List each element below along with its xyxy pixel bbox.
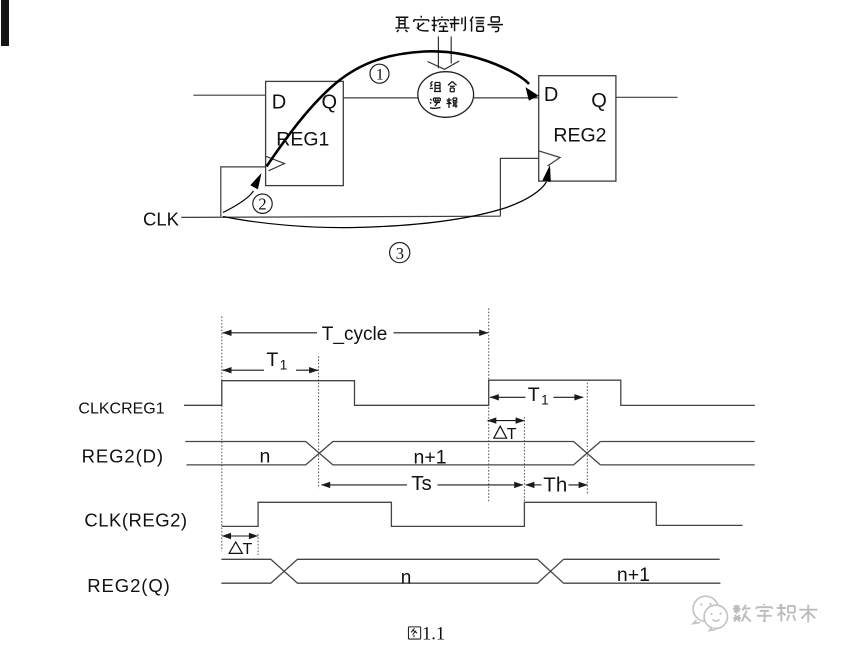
watermark logo bubbles xyxy=(693,596,727,630)
label 组合 inside ellipse xyxy=(430,82,457,92)
svg-text:1: 1 xyxy=(541,392,549,407)
clock wedge REG2 xyxy=(539,151,560,166)
svg-text:Th: Th xyxy=(543,473,567,496)
T_cycle dimension arrow xyxy=(223,332,488,334)
caption 图1.1 xyxy=(408,627,420,639)
REG2(Q) waveform xyxy=(221,559,720,583)
arrowhead of curve 1 xyxy=(526,87,539,100)
svg-text:T: T xyxy=(507,426,517,443)
arrowhead of curve 3 xyxy=(542,165,550,182)
svg-text:n: n xyxy=(260,446,271,468)
watermark text 数字积木 xyxy=(733,604,817,622)
label delta T lower xyxy=(229,542,242,553)
wire REG1 Q to combinational logic xyxy=(343,97,418,99)
delta T upper dimension arrow xyxy=(488,420,525,422)
combinational logic ellipse U1 xyxy=(418,72,474,118)
delta T lower dimension arrow xyxy=(222,535,258,537)
dashed guide line x=524.4 xyxy=(523,417,525,508)
dashed guide line x=221.8 xyxy=(221,316,223,551)
svg-text:REG2: REG2 xyxy=(553,124,606,146)
svg-text:CLK: CLK xyxy=(143,208,180,229)
svg-text:REG2(D): REG2(D) xyxy=(82,445,164,466)
svg-text:CLKCREG1: CLKCREG1 xyxy=(78,401,164,418)
label delta T upper xyxy=(494,426,507,438)
black bar artifact top-left xyxy=(1,0,9,46)
CLK(REG2) waveform xyxy=(222,502,743,526)
curve 1 from REG1 clock to REG2 D xyxy=(267,51,530,166)
node 3 circled xyxy=(390,243,410,263)
node 1 circled xyxy=(370,64,389,83)
wire REG2 Q output xyxy=(616,96,678,98)
control signal hollow arrow xyxy=(428,37,460,70)
label 逻辑 inside ellipse xyxy=(430,98,458,109)
T1 second dimension arrow xyxy=(490,396,583,398)
svg-text:1: 1 xyxy=(280,357,288,372)
svg-text:T: T xyxy=(243,541,253,558)
svg-text:n: n xyxy=(401,567,412,588)
curve 3 CLK to REG2 clock xyxy=(223,182,547,228)
svg-text:n+1: n+1 xyxy=(617,564,650,586)
svg-text:T: T xyxy=(528,384,540,406)
svg-text:2: 2 xyxy=(258,195,266,214)
svg-text:Ts: Ts xyxy=(411,472,432,495)
T1 first dimension arrow xyxy=(223,369,318,371)
register REG2 xyxy=(539,76,616,181)
svg-text:Q: Q xyxy=(591,90,607,112)
dashed guide line x=488.7 xyxy=(488,308,490,503)
wire combinational logic to REG2 D xyxy=(474,97,539,99)
svg-text:3: 3 xyxy=(396,244,404,263)
curve 2 CLK to REG1 clock xyxy=(223,191,254,213)
wire REG1 clock L-route xyxy=(221,167,266,217)
Th dimension arrow xyxy=(526,484,588,486)
svg-text:T_cycle: T_cycle xyxy=(322,324,387,345)
svg-text:n+1: n+1 xyxy=(414,447,447,469)
label 其它控制信号 (other control signals) xyxy=(395,16,503,32)
register REG1 xyxy=(266,81,344,185)
svg-text:REG2(Q): REG2(Q) xyxy=(87,575,170,596)
clock wedge REG1 xyxy=(266,156,285,171)
Ts dimension arrow xyxy=(322,484,524,486)
svg-text:1.1: 1.1 xyxy=(422,625,445,645)
dashed guide line x=318.6 xyxy=(318,356,320,488)
dashed tick x=258.1 for delta T xyxy=(257,534,259,555)
wire CLK horizontal xyxy=(181,216,500,217)
svg-text:D: D xyxy=(544,84,558,106)
node 2 circled xyxy=(253,194,272,214)
svg-text:T: T xyxy=(266,349,278,371)
dashed guide line x=587.3 xyxy=(586,383,588,495)
svg-text:CLK(REG2): CLK(REG2) xyxy=(84,510,187,531)
svg-text:1: 1 xyxy=(376,66,384,83)
REG2(D) waveform xyxy=(185,442,754,465)
wire REG2 clock L-route xyxy=(500,158,538,216)
CLKCREG1 waveform xyxy=(184,380,755,405)
svg-text:D: D xyxy=(272,92,286,114)
wire input to REG1 D xyxy=(193,94,265,96)
arrowhead of curve 2 xyxy=(250,173,261,189)
